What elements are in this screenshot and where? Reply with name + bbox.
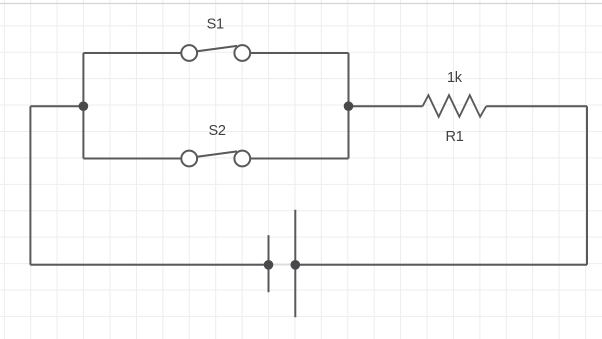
label R1 xyxy=(446,129,464,145)
wire bottom-left run to battery xyxy=(30,264,268,266)
wire node to resistor xyxy=(349,105,423,107)
switch S1 xyxy=(181,45,250,61)
switch S1 left terminal xyxy=(181,45,197,61)
wire bottom-right segment of S2 row xyxy=(249,158,349,160)
resistor R1 xyxy=(423,95,487,117)
label S2 xyxy=(209,123,226,139)
switch S2 left terminal xyxy=(181,151,197,167)
wire right branch vertical xyxy=(348,53,350,159)
switch S1 blade xyxy=(197,46,237,51)
switch S2 xyxy=(181,151,250,167)
label 1k value xyxy=(447,70,463,86)
wire left branch vertical xyxy=(82,53,84,159)
battery B1 long plate xyxy=(294,210,296,318)
wire top-right segment of S1 row xyxy=(249,52,349,54)
node right junction xyxy=(344,101,354,111)
wire bottom-left segment of S2 row xyxy=(83,158,183,160)
svg-text:S1: S1 xyxy=(207,16,224,32)
label S1 xyxy=(207,16,224,32)
switch S1 right terminal xyxy=(234,45,250,61)
wire bottom-right run to battery xyxy=(295,264,587,266)
wire top-left segment of S1 row xyxy=(83,52,183,54)
faint wire under battery xyxy=(269,264,296,266)
node battery right terminal xyxy=(291,260,301,270)
svg-text:1k: 1k xyxy=(447,70,463,86)
node battery left terminal xyxy=(264,260,274,270)
top border line xyxy=(0,3,602,5)
svg-text:R1: R1 xyxy=(446,129,464,145)
switch S2 blade xyxy=(197,151,237,156)
wire right side vertical drop xyxy=(586,106,588,265)
switch S2 right terminal xyxy=(234,151,250,167)
wire resistor to right edge xyxy=(486,105,587,107)
svg-text:S2: S2 xyxy=(209,123,226,139)
wire left side vertical drop xyxy=(29,106,31,265)
node left junction xyxy=(79,101,89,111)
battery B1 short plate xyxy=(268,235,270,292)
wire left tail horizontal xyxy=(30,105,83,107)
